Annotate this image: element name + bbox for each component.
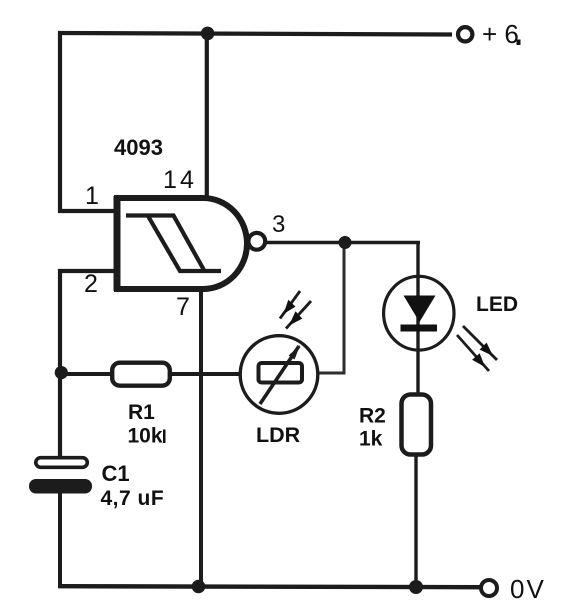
- label C1: [102, 461, 130, 486]
- wire pin1 stub: [58, 209, 117, 213]
- wire junction to R1: [60, 372, 110, 376]
- node pin7 / bottom rail junction: [192, 580, 206, 594]
- svg-text:1: 1: [163, 166, 177, 194]
- terminal 0V: [481, 580, 497, 596]
- wire left rail lower: [58, 269, 62, 457]
- pin label 1: [85, 182, 99, 210]
- svg-text:3: 3: [272, 211, 285, 238]
- wire gate output: [264, 241, 420, 245]
- svg-text:1k: 1k: [359, 428, 383, 451]
- wire bottom rail: [58, 586, 480, 587]
- LDR resistor box: [259, 363, 303, 383]
- node top rail / pin14 junction: [201, 27, 215, 41]
- wire R2 to bottom rail: [414, 456, 417, 588]
- wire pin7 to bottom rail: [199, 289, 203, 587]
- label 0V: [510, 574, 546, 604]
- svg-text:2: 2: [84, 270, 98, 298]
- svg-text:4,7 uF: 4,7 uF: [101, 487, 165, 510]
- svg-text:1: 1: [85, 182, 99, 210]
- label 4093: [114, 135, 163, 160]
- wire bottom rail to 0V terminal: [416, 585, 480, 589]
- svg-text:R1: R1: [128, 401, 155, 424]
- svg-text:C1: C1: [102, 461, 130, 486]
- NAND gate U1 4093 body: [117, 196, 247, 291]
- LDR diagonal arrow: [260, 345, 300, 404]
- wire top rail: [58, 33, 452, 35]
- svg-text:R2: R2: [359, 405, 386, 428]
- wire LDR right: [302, 372, 345, 375]
- LDR incoming light arrow 2: [286, 301, 311, 329]
- svg-text:0V: 0V: [510, 574, 546, 604]
- label R2: [359, 405, 386, 428]
- wire pin2 stub: [58, 269, 117, 273]
- svg-text:LDR: LDR: [256, 423, 301, 447]
- terminal +6V: [458, 27, 472, 41]
- schmitt hysteresis symbol: [126, 216, 221, 272]
- pin label 7: [176, 293, 190, 321]
- wire C1 to bottom rail: [58, 492, 62, 588]
- pin label 14: [163, 166, 194, 194]
- label R2 value 1k: [359, 428, 383, 451]
- label LED: [476, 293, 518, 316]
- wire pin14 from top rail: [205, 33, 209, 198]
- node input junction R1/C1: [55, 366, 68, 379]
- svg-text:4093: 4093: [114, 135, 163, 160]
- label R1 value 10k: [128, 425, 166, 448]
- label C1 value 4,7 uF: [101, 487, 165, 510]
- wire LDR up to output node: [343, 242, 346, 375]
- LED emitted light arrow 2: [457, 335, 489, 371]
- LED emitted light arrow 1: [463, 326, 497, 360]
- LED body circle: [384, 276, 454, 350]
- node R2 / bottom rail junction: [409, 580, 423, 594]
- svg-text:LED: LED: [476, 293, 518, 316]
- capacitor C1 bottom plate: [29, 479, 92, 494]
- label LDR: [256, 423, 301, 447]
- svg-text:7: 7: [176, 293, 190, 321]
- wire left rail upper: [58, 31, 62, 213]
- LDR incoming light arrow 1: [280, 291, 300, 319]
- resistor R1: [112, 363, 170, 386]
- LED diode triangle: [404, 296, 436, 323]
- svg-text:+ 6: + 6: [482, 19, 519, 49]
- wire R1 to LDR: [172, 372, 258, 376]
- pin label 3: [272, 211, 285, 238]
- node output / LDR / LED junction: [339, 236, 352, 249]
- svg-text:10k: 10k: [128, 425, 163, 448]
- label +6 supply: [482, 19, 521, 49]
- svg-text:4: 4: [180, 166, 194, 194]
- gate output inversion bubble: [248, 233, 265, 250]
- pin label 2: [84, 270, 98, 298]
- capacitor C1 top plate: [36, 458, 88, 468]
- label R1: [128, 401, 155, 424]
- resistor R2: [402, 395, 432, 455]
- LED cathode bar: [401, 325, 438, 332]
- wire output down through LED to R2: [416, 241, 419, 393]
- LDR body circle: [240, 336, 318, 414]
